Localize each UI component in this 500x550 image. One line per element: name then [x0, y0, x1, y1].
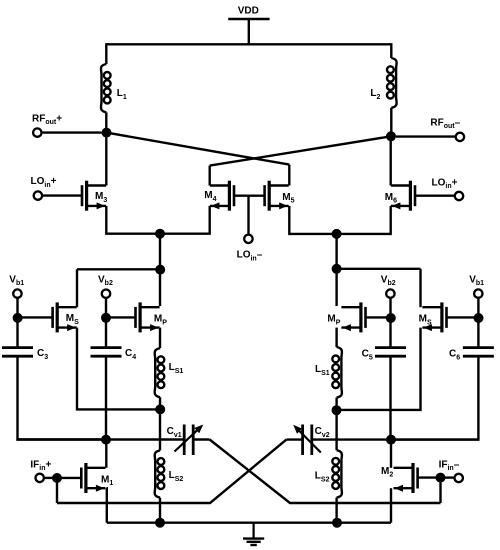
svg-text:LOin–: LOin–: [237, 250, 263, 263]
wire M2 source: [390, 488, 392, 523]
svg-text:LS1: LS1: [169, 362, 184, 375]
svg-text:C4: C4: [125, 348, 136, 361]
inductor LS2 left: [155, 450, 165, 497]
svg-text:LS1: LS1: [315, 364, 330, 377]
svg-text:LOin+: LOin+: [31, 176, 57, 189]
wire Vb2-left to MP gate: [106, 316, 136, 318]
svg-text:IFin+: IFin+: [30, 459, 51, 472]
terminal Vb2 left: [102, 290, 110, 298]
wire IFin+ to M1 gate: [57, 477, 81, 479]
wire rail to L1: [105, 43, 107, 64]
wire M4 drain: [208, 166, 210, 186]
terminal RFout-: [456, 133, 464, 141]
wire Cv2 to cross: [286, 438, 302, 440]
node IFin+ gate: [52, 473, 62, 483]
junction left tank to rail: [155, 518, 165, 528]
wire LOin- gate bus: [234, 194, 265, 196]
wire IFin+ lead: [44, 477, 53, 479]
svg-text:C5: C5: [362, 349, 373, 362]
wire L2 to RF- node: [390, 108, 392, 137]
junction left cascode drain: [155, 265, 165, 275]
wire IFin- to M2 gate: [418, 476, 441, 478]
wire MS-right drain link: [337, 268, 421, 270]
svg-text:MS: MS: [66, 313, 79, 326]
terminal IFin-: [455, 474, 463, 482]
svg-text:LS2: LS2: [169, 470, 184, 483]
wire MP-right source: [335, 328, 337, 347]
wire M4 source: [160, 206, 210, 234]
wire left varactor rail: [16, 438, 184, 440]
terminal RFout+: [33, 128, 41, 136]
node RFout+: [102, 128, 112, 138]
wire right column bottom: [335, 498, 337, 523]
wire M6 source: [337, 206, 391, 234]
wire bottom ground rail: [107, 522, 391, 524]
svg-text:MS: MS: [419, 314, 432, 327]
wire Cv1 to cross: [193, 438, 209, 440]
wire Vb1-right stem: [477, 298, 479, 313]
capacitor C6: [463, 348, 494, 357]
node Vb1 right: [474, 313, 484, 323]
inductor LS2 right: [332, 450, 342, 497]
wire M1 drain: [105, 440, 107, 468]
wire Vb2-left stem: [105, 298, 107, 313]
wire Vb1-right to C6: [477, 318, 479, 348]
varactor Cv1: [175, 425, 204, 456]
wire cross Cv1 to IFin-: [210, 440, 441, 504]
power VDD symbol: [228, 18, 269, 21]
svg-text:C6: C6: [449, 349, 460, 362]
wire Vb2-right to C5: [389, 318, 391, 348]
transistor M1: [81, 463, 105, 493]
transistor M5: [265, 181, 289, 211]
wire RFout- lead: [396, 135, 455, 137]
capacitor C5: [375, 348, 406, 357]
transistor M3: [82, 181, 106, 211]
wire M1 source: [105, 488, 108, 523]
wire RFout+ lead: [42, 131, 102, 133]
svg-text:M5: M5: [282, 192, 294, 205]
inductor LS1 right: [332, 347, 342, 398]
wire right column mid: [335, 398, 337, 451]
transistor MS right: [422, 302, 446, 332]
svg-text:Cv1: Cv1: [167, 426, 182, 439]
terminal LOin-: [244, 235, 252, 243]
svg-text:Vb1: Vb1: [9, 274, 24, 287]
svg-text:RFout+: RFout+: [32, 113, 62, 126]
terminal Vb1 right: [474, 289, 482, 297]
wire left column bottom: [159, 498, 161, 523]
svg-text:MP: MP: [154, 314, 167, 327]
node Vb1 left: [13, 313, 23, 323]
transistor M4: [210, 181, 234, 211]
svg-text:C3: C3: [37, 348, 48, 361]
wire Vb1-right to MS gate: [447, 316, 479, 318]
wire Vb1-left to MS gate: [18, 316, 52, 318]
wire cross-couple RF+ to M5 drain: [107, 133, 290, 165]
svg-text:M6: M6: [385, 192, 397, 205]
svg-text:Vb2: Vb2: [381, 274, 396, 287]
transistor MS left: [53, 302, 77, 332]
node IFin- gate: [436, 473, 446, 483]
wire MS-right drain: [419, 269, 421, 307]
wire C5 to IF rail: [389, 356, 391, 439]
svg-text:Vb1: Vb1: [469, 274, 484, 287]
node Vb2 left: [101, 313, 111, 323]
junction LS1-right bottom: [332, 405, 342, 415]
terminal Vb1 left: [13, 289, 21, 297]
wire M3 source: [106, 206, 160, 234]
wire top supply rail: [106, 43, 391, 45]
node RFout-: [386, 131, 396, 141]
wire left column mid: [159, 397, 161, 450]
node Vb2 right: [386, 313, 396, 323]
svg-text:Vb2: Vb2: [98, 274, 113, 287]
wire LOin+ right lead: [415, 194, 454, 196]
wire IFin- lead: [445, 476, 454, 478]
wire left column upper: [159, 234, 161, 306]
svg-text:LOin+: LOin+: [432, 177, 458, 190]
terminal LOin+ right: [455, 192, 463, 200]
wire Vb1-left stem: [16, 298, 18, 313]
wire Vb2-right to MP gate: [366, 316, 391, 318]
wire Vb2-right stem: [389, 298, 391, 313]
wire C4 to IF rail: [105, 356, 107, 439]
wire Vb2-left to C4: [105, 318, 107, 348]
wire Vb1-left to C3: [16, 318, 18, 348]
wire M3 drain: [105, 137, 107, 186]
svg-text:M3: M3: [95, 191, 107, 204]
terminal IFin+: [36, 474, 44, 482]
terminal Vb2 right: [386, 289, 394, 297]
ground: [243, 523, 264, 545]
wire cross-couple RF- to M4 drain: [210, 136, 391, 165]
transistor MP right: [341, 302, 365, 332]
transistor MP left: [136, 302, 160, 332]
wire M5 drain: [288, 165, 290, 186]
wire MS-left drain link: [77, 268, 160, 270]
wire VDD stem: [248, 19, 250, 44]
svg-text:IFin–: IFin–: [439, 459, 460, 472]
junction right cascode drain: [332, 264, 342, 274]
wire M2 drain: [390, 440, 392, 468]
wire LOin+ left lead: [43, 194, 81, 196]
svg-text:M1: M1: [101, 474, 113, 487]
inductor L1: [101, 64, 111, 112]
wire M5 source: [289, 206, 336, 234]
wire L1 to RF+ node: [105, 112, 107, 132]
svg-text:VDD: VDD: [238, 5, 259, 16]
svg-text:M4: M4: [204, 190, 216, 203]
wire MS-left drain: [76, 269, 78, 307]
wire C6 to gnd rail: [391, 356, 478, 439]
wire rail to L2: [390, 43, 392, 58]
wire LOin- stem: [247, 196, 249, 235]
junction LS1-left bottom: [155, 404, 165, 414]
transistor M6: [391, 181, 415, 211]
transistor M2: [394, 463, 418, 493]
svg-text:L2: L2: [370, 88, 380, 101]
node C5/M2 drain: [386, 435, 396, 445]
terminal LOin+ left: [34, 191, 42, 199]
capacitor C3: [2, 348, 33, 357]
junction M5/M6 sources: [332, 229, 342, 239]
svg-text:Cv2: Cv2: [315, 426, 330, 439]
wire MS-right source: [337, 328, 421, 410]
wire cross Cv2 to IFin+: [57, 440, 286, 503]
node C4/M1 drain: [101, 435, 111, 445]
junction right tank to rail: [332, 518, 342, 528]
wire M6 drain: [390, 141, 392, 186]
svg-text:LS2: LS2: [315, 471, 330, 484]
svg-text:RFout–: RFout–: [430, 117, 460, 130]
wire C3 to gnd rail: [18, 356, 107, 439]
inductor LS1 left: [155, 348, 165, 397]
svg-text:MP: MP: [327, 314, 340, 327]
wire MS-left source: [77, 328, 160, 410]
wire IFin+ gate drop: [56, 478, 58, 503]
wire right varactor rail: [312, 438, 479, 440]
inductor L2: [387, 58, 397, 108]
capacitor C4: [91, 348, 122, 357]
wire IFin- gate drop: [439, 478, 441, 503]
wire right column upper: [335, 234, 337, 306]
svg-text:L1: L1: [117, 88, 127, 101]
junction M3/M4 sources: [155, 229, 165, 239]
wire MP-left source: [159, 328, 161, 349]
varactor Cv2: [293, 425, 321, 456]
